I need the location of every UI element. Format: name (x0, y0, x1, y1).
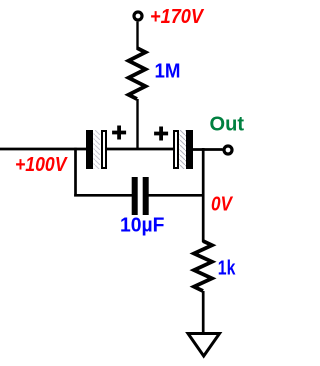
svg-text:Out: Out (210, 114, 245, 136)
wire R2 to ground (202, 291, 205, 332)
wire main left (0, 148, 87, 151)
ground (188, 334, 220, 357)
wire terminal to R1 (136, 22, 138, 49)
resistor R1 1M (129, 48, 146, 99)
wire C2 to output terminal (193, 148, 223, 151)
svg-text:0V: 0V (211, 194, 233, 216)
wire between capacitors (105, 148, 174, 151)
svg-text:1k: 1k (218, 258, 236, 280)
wire bottom right (149, 194, 205, 197)
svg-text:1M: 1M (155, 60, 181, 82)
capacitor C1 (left coupling cap) (86, 130, 106, 169)
capacitor C3 10uF (132, 177, 149, 215)
terminal Out (224, 146, 232, 154)
wire right vertical (202, 148, 205, 242)
wire left drop (74, 148, 77, 197)
wire R1 to junction (136, 99, 138, 150)
plus sign C2 (154, 127, 168, 141)
plus sign C1 (112, 126, 126, 140)
svg-text:+100V: +100V (15, 154, 68, 176)
svg-text:+170V: +170V (150, 6, 205, 28)
terminal +170V (134, 12, 142, 20)
capacitor C2 (right coupling cap) (174, 130, 193, 169)
svg-text:10µF: 10µF (120, 214, 165, 236)
resistor R2 1k (194, 241, 212, 291)
wire bottom left (74, 194, 132, 197)
